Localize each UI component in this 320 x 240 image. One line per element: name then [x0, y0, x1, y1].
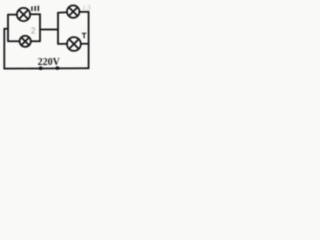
- background: [0, 0, 95, 76]
- wire: lamp L3 right stub: [80, 11, 89, 13]
- wire: right ring left vertical: [57, 13, 59, 44]
- wire: left feed vertical: [3, 29, 5, 69]
- wire: lamp L4 right stub: [81, 43, 89, 45]
- lamp L4: [67, 37, 81, 51]
- wire: left ring left vertical: [7, 15, 9, 42]
- wire: lamp L2 right stub: [31, 40, 40, 42]
- lamp L2: [20, 36, 31, 47]
- wire: right rail vertical: [88, 12, 90, 68]
- node dot: supply terminal right: [56, 66, 60, 70]
- lamp L3: [67, 5, 79, 17]
- wire: bottom rail: [4, 67, 88, 69]
- label L1 (three strokes): [31, 6, 39, 11]
- svg-text:L3: L3: [83, 5, 91, 12]
- wire: lamp L2 left stub: [8, 40, 19, 42]
- wire: lamp L1 right stub: [30, 13, 40, 15]
- lamp L1: [17, 8, 30, 21]
- svg-text:220V: 220V: [38, 57, 61, 68]
- label T (lamp L4): [82, 33, 86, 38]
- wire: middle connector: [40, 29, 58, 31]
- wire: left ring top-left stub: [8, 14, 17, 16]
- wire: left ring right vertical: [39, 14, 41, 41]
- wire: left feed jog: [4, 28, 8, 30]
- wire: lamp L4 left stub: [58, 43, 67, 45]
- node dot: supply terminal left: [39, 66, 43, 70]
- svg-text:2: 2: [31, 27, 36, 36]
- wire: lamp L3 left stub: [58, 11, 67, 14]
